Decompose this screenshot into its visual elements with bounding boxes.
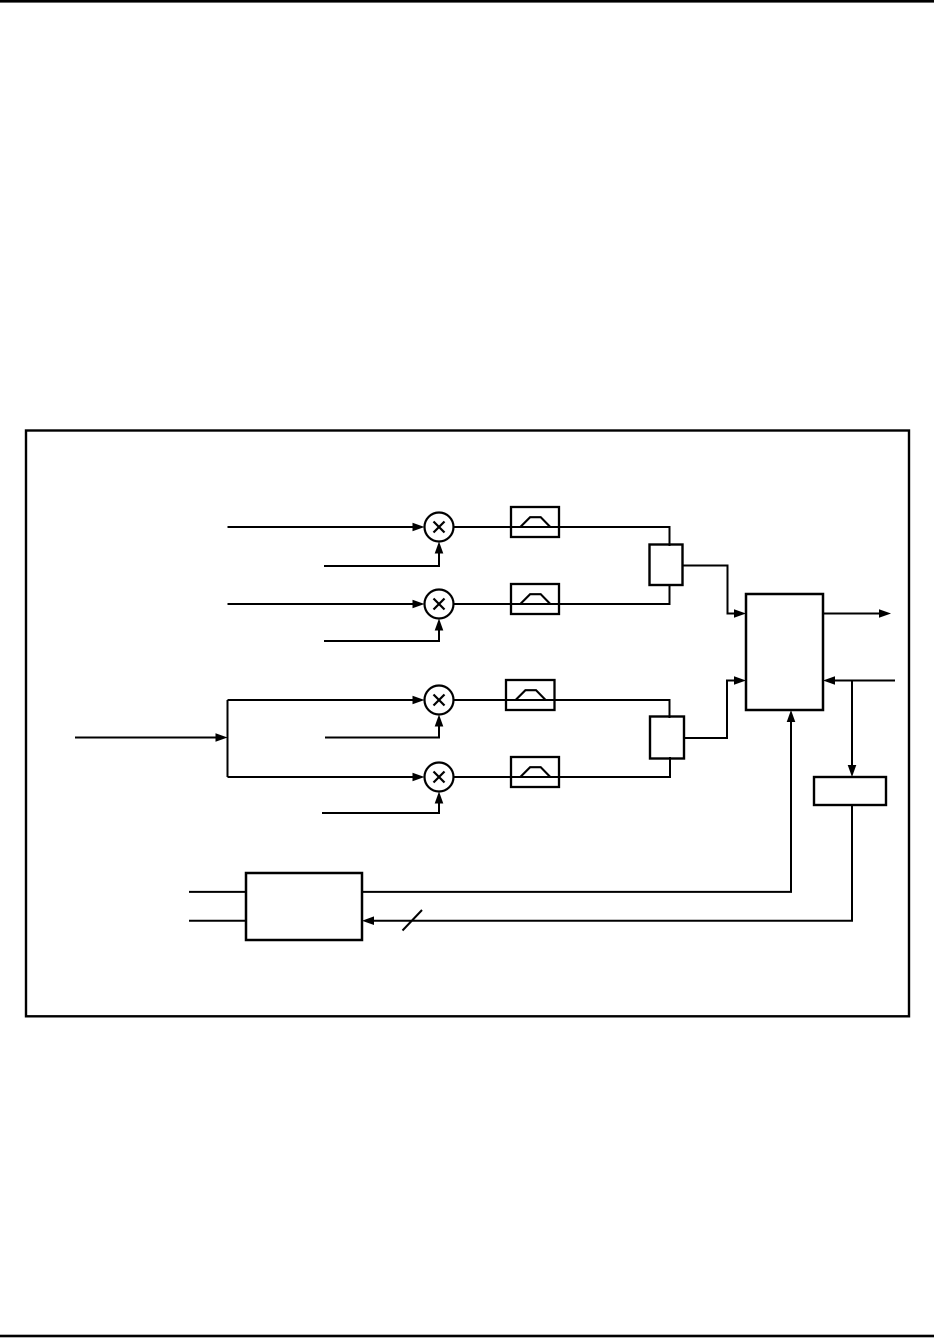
arrowhead LO into M2 [435, 619, 444, 631]
wire row3 input [228, 699, 416, 701]
wire adder1 to main block [682, 566, 737, 614]
arrowhead into mixer M3 [413, 696, 425, 705]
lower right block [814, 777, 886, 805]
top rule [0, 0, 934, 3]
adder block S1 [650, 545, 683, 586]
bandpass filter F3 [506, 680, 555, 710]
arrowhead main block output [879, 609, 891, 618]
arrowhead into mixer M4 [413, 773, 425, 782]
arrowhead right input into main block [823, 676, 835, 685]
figure frame [26, 431, 909, 1017]
bottom left block [246, 873, 362, 940]
arrowhead into mixer M1 [413, 523, 425, 532]
bus width slash [403, 910, 423, 931]
mixer M4 [425, 763, 454, 792]
wire row2 mixer to adder1 [454, 584, 670, 604]
arrowhead adder2 to main block [734, 676, 746, 685]
arrowhead adder1 to main block [734, 609, 746, 618]
wire adder2 to main block [684, 681, 737, 739]
arrowhead main input [216, 733, 228, 742]
mixer M2 [425, 590, 454, 619]
wire row1 mixer to adder1 [454, 527, 670, 546]
bottom rule [0, 1335, 934, 1338]
wire bottom box left stub 1 [189, 891, 246, 893]
wire bottom box output feedback [362, 719, 791, 892]
mixer M1 [425, 513, 454, 542]
wire row2 LO feed [324, 622, 439, 641]
adder block S2 [650, 717, 684, 759]
wire row1 LO feed [324, 545, 439, 566]
arrowhead LO into M4 [435, 792, 444, 804]
bandpass filter F1 [511, 507, 559, 537]
bandpass filter F4 [511, 757, 559, 787]
wire row3 LO feed [325, 718, 439, 738]
wire main block output [823, 613, 882, 615]
arrowhead into mixer M2 [413, 600, 425, 609]
wire drop to lower block [851, 681, 853, 769]
wire row4 mixer to adder2 [454, 757, 671, 777]
wire input branch [227, 700, 229, 777]
wire bottom box left stub 2 [189, 920, 246, 922]
arrowhead LO into M1 [435, 542, 444, 554]
wire lower block output return [371, 805, 852, 921]
wire row4 LO feed [322, 795, 439, 813]
arrowhead feedback into main block bottom [787, 710, 796, 722]
mixer M3 [425, 686, 454, 715]
main block [746, 594, 823, 710]
wire right-side input [832, 680, 895, 682]
wire main input [75, 737, 218, 739]
arrowhead into lower right block [848, 765, 857, 777]
wire row3 mixer to adder2 [454, 700, 670, 718]
wire row2 input [228, 603, 416, 605]
arrowhead LO into M3 [435, 715, 444, 727]
arrowhead return into bottom left block [362, 916, 374, 925]
wire row1 input [228, 526, 416, 528]
wire row4 input [228, 776, 416, 778]
bandpass filter F2 [511, 584, 559, 614]
